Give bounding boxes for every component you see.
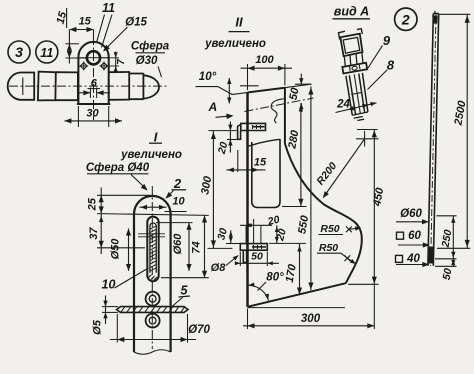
svg-text:15: 15	[79, 15, 92, 27]
clamp band	[342, 63, 367, 74]
clevis frame inner	[343, 37, 360, 53]
svg-text:24: 24	[336, 99, 350, 111]
bolt hole lower	[146, 314, 160, 328]
svg-text:Ø60: Ø60	[172, 233, 184, 255]
mast pole outline	[428, 14, 439, 266]
dimension 100 (top width)	[247, 64, 249, 90]
svg-text:30: 30	[86, 108, 99, 120]
svg-text:Ø30: Ø30	[136, 55, 158, 67]
dimension 50 (mast)	[435, 265, 457, 267]
svg-text:11: 11	[102, 1, 115, 15]
bracket top edge (10 deg)	[232, 84, 312, 94]
svg-text:R50: R50	[319, 242, 338, 254]
lower pin bracket	[240, 244, 267, 251]
svg-text:25: 25	[87, 197, 99, 211]
upper pin bracket hatch	[252, 125, 254, 129]
bolt hole upper	[146, 292, 160, 306]
hinge bar right dome cap	[129, 73, 159, 100]
svg-text:Ø8: Ø8	[211, 262, 227, 274]
svg-text:40: 40	[406, 253, 420, 265]
svg-text:11: 11	[40, 46, 53, 60]
dimension O60 (vertical)	[156, 222, 193, 224]
dimension 50 (top right)	[295, 83, 312, 85]
svg-text:80°: 80°	[266, 272, 284, 284]
clevis top bar	[339, 29, 363, 40]
svg-text:Ø60: Ø60	[400, 208, 422, 220]
dimension 300 (left, to pin)	[212, 131, 214, 248]
svg-text:10: 10	[102, 277, 116, 291]
svg-text:10°: 10°	[199, 71, 217, 83]
svg-text:50: 50	[441, 267, 455, 281]
upper pin bracket	[241, 123, 266, 130]
lug vertical centre line	[93, 36, 95, 120]
rudder stock hatch (sectioned tube)	[150, 226, 156, 229]
window top curve	[249, 139, 281, 146]
mast axis line 10 deg	[245, 98, 314, 112]
legs bottom ends	[352, 112, 368, 118]
svg-text:Сфера: Сфера	[131, 40, 170, 52]
dimension 450 (vertical right)	[357, 129, 378, 131]
svg-text:R50: R50	[320, 223, 339, 235]
svg-text:74: 74	[190, 241, 202, 253]
svg-text:60: 60	[408, 230, 421, 242]
hinge bar left capsule segment	[8, 73, 35, 100]
dimension 37 (vertical)	[99, 216, 103, 222]
svg-text:Ø50: Ø50	[109, 238, 121, 260]
balloon 2 (part number circle)	[395, 8, 417, 30]
dimension 550 (vertical)	[310, 87, 312, 291]
shaft between frame and clamp	[344, 53, 363, 67]
bracket R200 trailing curve	[285, 144, 362, 284]
dimension 30 (to pin)	[230, 230, 232, 243]
svg-text:Ø15: Ø15	[125, 17, 147, 29]
centre mark left of hole	[80, 63, 87, 70]
bracket lightening window	[252, 139, 280, 208]
svg-text:вид А: вид А	[334, 4, 369, 18]
dimension 30 (block width)	[77, 106, 79, 127]
hole O15 in lug	[87, 51, 100, 64]
clamp band detail	[352, 66, 358, 71]
angle arrows 10 deg	[228, 78, 230, 104]
dimension O5 (plate thickness)	[102, 306, 118, 308]
svg-text:увеличено: увеличено	[204, 38, 266, 50]
dimension O50 (vertical)	[128, 229, 130, 272]
svg-text:10: 10	[172, 195, 185, 207]
bracket left edge	[246, 93, 249, 307]
hinge bar right washer segment	[109, 72, 130, 100]
svg-text:100: 100	[255, 54, 274, 66]
crossbar plate	[117, 307, 189, 313]
tiller slot inner tube	[150, 223, 156, 273]
hinge bar washer segment	[38, 72, 56, 101]
dimension 25 (vertical)	[100, 188, 102, 255]
dimension 20 (upper pin)	[209, 130, 237, 132]
mast square section (dark)	[428, 247, 434, 264]
clevis frame outer	[340, 34, 362, 57]
lower cluster dims 20 20	[245, 226, 247, 244]
dimension 170 (vertical)	[269, 242, 306, 244]
dimension 74 (vertical)	[161, 277, 209, 279]
svg-text:I: I	[154, 129, 158, 144]
svg-text:37: 37	[88, 227, 100, 240]
svg-text:2: 2	[401, 11, 410, 27]
svg-text:увеличено: увеличено	[120, 149, 182, 161]
local break scallop	[271, 99, 284, 123]
mast top cap	[432, 16, 437, 24]
svg-text:300: 300	[301, 313, 321, 325]
hinge bar centre line	[9, 85, 168, 87]
crossbar plate hatch	[121, 307, 125, 312]
legs below clamp	[346, 73, 368, 115]
hole horizontal centre line	[79, 57, 110, 59]
mast pole centre line	[431, 13, 436, 266]
svg-text:II: II	[235, 14, 243, 29]
dimension 7 (hole to mark)	[101, 57, 119, 59]
svg-text:5: 5	[181, 283, 189, 297]
dimension 25 / 37 extension lines	[97, 194, 150, 196]
bracket bottom edge	[248, 283, 346, 307]
svg-text:Сфера Ø40: Сфера Ø40	[86, 162, 150, 174]
hinge block bottom edge	[77, 103, 110, 105]
lower pin bracket hatch	[253, 245, 255, 249]
svg-text:7: 7	[116, 59, 127, 65]
svg-text:9: 9	[383, 33, 391, 48]
svg-text:2: 2	[173, 176, 182, 191]
dimension 50 (pin length)	[239, 252, 241, 267]
rudder head body break line	[134, 350, 171, 355]
svg-text:А: А	[207, 100, 217, 114]
dimension 300 (bottom)	[247, 309, 249, 330]
rudder head body outline	[134, 196, 171, 352]
dimension O70 (plate length)	[116, 314, 118, 343]
svg-text:8: 8	[387, 57, 395, 72]
dimension 280 (vertical)	[300, 103, 302, 206]
hinge centre block with lug	[78, 42, 108, 104]
dimension 10 (slot width)	[140, 206, 167, 208]
label square 40 with arrow	[396, 255, 403, 262]
svg-text:3: 3	[15, 44, 23, 60]
svg-text:Ø5: Ø5	[91, 319, 103, 335]
label square 60 with arrow	[397, 232, 404, 239]
tiller slot outer outline	[147, 217, 158, 282]
svg-text:15: 15	[254, 156, 267, 168]
balloon 3 (part number circle)	[8, 41, 30, 63]
bracket right upper edge	[284, 88, 286, 144]
extension below pin	[237, 150, 239, 172]
dimension 250	[437, 215, 457, 217]
svg-text:50: 50	[251, 250, 263, 262]
centre mark right of hole	[101, 63, 108, 70]
horizontal reference line	[248, 307, 346, 309]
balloon 11 (part number circle)	[36, 41, 58, 63]
svg-text:Ø70: Ø70	[188, 324, 210, 336]
dimension 2500	[440, 13, 471, 15]
rudder head centre line	[151, 186, 153, 349]
